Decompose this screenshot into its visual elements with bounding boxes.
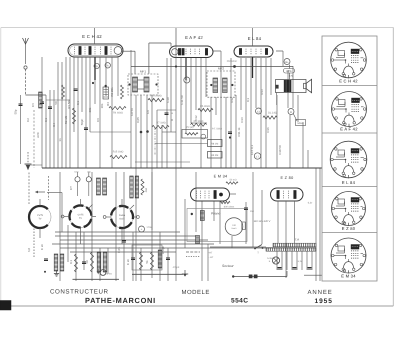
svg-text:R8 1M: R8 1M <box>211 142 218 145</box>
junction <box>140 131 143 134</box>
node F <box>184 77 190 83</box>
node E <box>254 153 260 159</box>
wire <box>285 201 287 278</box>
svg-text:R3: R3 <box>106 102 110 106</box>
IF transformer MF2 <box>207 71 235 97</box>
wire <box>140 95 142 168</box>
coil L2 <box>54 254 58 271</box>
node C1c <box>256 108 262 114</box>
svg-text:B+: B+ <box>285 61 289 64</box>
wire <box>225 97 227 168</box>
svg-text:50pF: 50pF <box>80 118 84 125</box>
svg-text:R2 1M: R2 1M <box>64 115 68 124</box>
wire <box>210 97 212 168</box>
wire <box>85 57 87 168</box>
wire <box>260 58 262 168</box>
node H <box>105 63 110 68</box>
svg-text:MODELE: MODELE <box>182 289 210 296</box>
svg-text:- HT: - HT <box>209 256 214 259</box>
svg-text:50 mΩ: 50 mΩ <box>229 179 236 182</box>
node +250v <box>139 226 145 232</box>
resistor R20 <box>226 182 238 184</box>
tube EL84 <box>234 46 273 57</box>
gang stub CV2 bottom <box>80 228 82 245</box>
wire <box>53 90 55 168</box>
node HPS box <box>284 69 295 74</box>
wire <box>301 251 303 270</box>
resistor R14 <box>263 116 277 119</box>
wire antenna branch <box>20 95 22 164</box>
wire <box>219 201 221 244</box>
antenna coupling switch <box>24 66 27 69</box>
wire node D to fuse <box>293 114 297 122</box>
wire <box>90 131 131 133</box>
svg-text:C9: C9 <box>146 110 150 114</box>
tube EAF42 <box>170 46 214 58</box>
wire <box>26 94 47 96</box>
svg-text:C13: C13 <box>240 117 244 123</box>
svg-text:E Z 80: E Z 80 <box>342 226 356 231</box>
wire <box>207 244 209 281</box>
svg-text:0,05: 0,05 <box>136 117 140 123</box>
gang stub CV2 right <box>92 216 97 218</box>
socket EAF42 <box>332 92 367 127</box>
svg-text:50p: 50p <box>14 109 18 114</box>
svg-text:20k: 20k <box>88 107 92 112</box>
socket EM34 <box>331 238 366 273</box>
svg-text:M: M <box>171 112 173 115</box>
tube EM34 <box>191 188 230 201</box>
fuse box 50mA <box>296 120 306 126</box>
wire <box>190 58 192 123</box>
gang link dashes <box>33 229 35 259</box>
resistor R2 <box>73 108 76 124</box>
wire <box>215 97 217 115</box>
wire bottom rail mid <box>132 273 183 275</box>
resistor R6 <box>198 108 213 111</box>
wire grid cap ECH42 <box>94 28 96 44</box>
capacitor C1 <box>40 101 44 103</box>
svg-text:AVC: AVC <box>36 132 40 138</box>
wire <box>184 199 186 248</box>
filter box outline <box>132 245 162 270</box>
gang stub CV2 top <box>80 199 82 206</box>
tube EZ80 <box>271 188 304 201</box>
capacitor CA <box>19 103 23 105</box>
svg-text:CR 10nF: CR 10nF <box>227 60 238 63</box>
speaker HP <box>306 79 311 92</box>
tuning gang circle CV3 <box>111 206 133 228</box>
svg-text:800 ohms: 800 ohms <box>224 205 235 208</box>
resistor R3c <box>121 85 124 99</box>
wire <box>201 201 203 281</box>
wire <box>205 58 207 97</box>
AVC dashed line <box>33 110 35 168</box>
svg-text:T.A: T.A <box>295 238 299 242</box>
wire thick anode ECH42 <box>94 57 96 80</box>
wire <box>162 131 176 133</box>
wire <box>302 122 304 168</box>
svg-text:R9 2M: R9 2M <box>211 154 218 157</box>
gang stub CV1 bottom <box>39 228 41 238</box>
wire <box>47 192 62 194</box>
svg-text:osc: osc <box>144 187 148 192</box>
gang stub CV2 diag <box>88 205 92 209</box>
svg-text:E L 84: E L 84 <box>342 180 356 185</box>
svg-text:554C: 554C <box>231 298 248 305</box>
resistor R16 <box>75 254 78 272</box>
resistor R8 box <box>208 140 223 147</box>
svg-text:6x15: 6x15 <box>120 218 126 221</box>
socket ECH42 <box>331 42 367 78</box>
wire <box>195 172 197 232</box>
ground arrow main <box>27 152 29 164</box>
socket column divider <box>322 132 377 134</box>
resistor R22 <box>220 201 230 203</box>
capacitor C28 <box>308 267 312 269</box>
power transformer T.A <box>273 243 316 247</box>
svg-text:1n: 1n <box>58 138 62 142</box>
wire <box>286 251 288 270</box>
wire <box>297 95 299 122</box>
capacitor C20 <box>44 258 48 260</box>
wire <box>253 246 266 248</box>
wire <box>60 239 208 241</box>
svg-text:C11 50: C11 50 <box>180 95 184 104</box>
wire grid cap EL84 <box>252 28 254 46</box>
wire <box>289 115 291 168</box>
wire <box>67 225 69 262</box>
node G <box>94 63 99 68</box>
resistor box R3b <box>103 87 109 99</box>
svg-text:R3 20k: R3 20k <box>110 87 114 97</box>
wire <box>91 172 93 281</box>
dash-dot wire <box>154 128 156 155</box>
potentiometer P1 box <box>182 130 208 139</box>
wire <box>255 58 257 108</box>
svg-text:ANNEE: ANNEE <box>308 289 333 296</box>
mains plug <box>249 275 252 278</box>
resistor R5 <box>148 98 164 101</box>
resistor R15 <box>110 155 127 158</box>
svg-text:0,1: 0,1 <box>44 118 48 122</box>
wire <box>130 50 132 168</box>
legend line1 <box>186 251 200 253</box>
svg-text:TV: TV <box>39 218 42 221</box>
wire <box>45 95 47 168</box>
svg-text:0,1: 0,1 <box>76 101 80 105</box>
coil L3 <box>60 254 64 271</box>
capacitor C25 <box>244 207 248 209</box>
wire <box>180 58 182 168</box>
tuning gang circle CV1 <box>29 206 51 228</box>
wire B+ line <box>131 66 293 68</box>
wire <box>60 247 316 249</box>
svg-text:C 2n: C 2n <box>40 244 44 250</box>
wire <box>191 122 207 124</box>
svg-text:6,3v: 6,3v <box>308 202 313 205</box>
coil L1 <box>39 92 43 108</box>
socket column divider <box>322 85 377 87</box>
wire <box>195 58 197 110</box>
svg-text:C18 50: C18 50 <box>278 145 282 155</box>
wire <box>289 65 291 69</box>
resistor R4 <box>109 106 126 109</box>
capacitor C2b <box>74 88 78 90</box>
wire <box>175 46 177 281</box>
wire <box>250 58 252 168</box>
svg-text:470pF: 470pF <box>161 246 165 254</box>
wire <box>69 57 71 168</box>
wire <box>265 58 267 168</box>
socket column divider <box>322 232 377 234</box>
wire <box>132 232 134 281</box>
capacitor C23 <box>131 257 135 259</box>
coil L6 <box>158 250 162 268</box>
svg-text:10n: 10n <box>100 103 104 108</box>
junction <box>175 65 177 67</box>
svg-text:D: D <box>290 111 292 114</box>
svg-text:6,3V: 6,3V <box>298 260 303 263</box>
svg-text:R1 50k: R1 50k <box>67 99 71 109</box>
svg-text:CV: CV <box>31 103 35 107</box>
scan blot bottom-left <box>0 301 11 311</box>
wire <box>49 90 51 168</box>
wire <box>245 58 247 168</box>
wire <box>213 50 221 52</box>
junction <box>232 275 234 277</box>
wire <box>59 172 61 281</box>
resistor R19 <box>151 252 154 270</box>
tuning gang circle CV2 <box>70 206 92 228</box>
wire <box>146 95 148 168</box>
svg-text:C15 0,1: C15 0,1 <box>250 145 254 156</box>
capacitor C26 <box>278 267 282 269</box>
junction <box>92 82 94 84</box>
svg-text:6,8: 6,8 <box>27 248 31 252</box>
wire <box>105 57 107 96</box>
coil L10 <box>135 176 138 198</box>
socket EZ80 <box>332 192 366 226</box>
wire <box>99 57 101 168</box>
resistor R9 box <box>208 152 223 159</box>
gang stub CV3 top <box>121 199 123 206</box>
wire <box>151 172 153 278</box>
gang stub CV2 left <box>64 216 70 218</box>
wire <box>286 271 288 277</box>
page bottom border <box>1 305 393 307</box>
wire thick anode EAF42 <box>185 58 187 80</box>
page right border <box>392 28 394 307</box>
svg-text:R5 0,5MΩ: R5 0,5MΩ <box>150 95 161 98</box>
svg-text:470pF: 470pF <box>173 266 180 269</box>
legend line2 <box>186 256 200 258</box>
svg-text:DL 14Ω: DL 14Ω <box>268 112 277 115</box>
wire <box>155 143 208 145</box>
svg-text:C6: C6 <box>96 118 100 122</box>
wire <box>166 58 168 168</box>
node B+ <box>284 59 290 65</box>
wire <box>231 236 233 248</box>
resistor R7 <box>152 125 169 128</box>
svg-text:R5 30kΩ: R5 30kΩ <box>200 105 210 108</box>
svg-text:MF1: MF1 <box>140 70 146 74</box>
capacitor C2 <box>48 106 52 108</box>
ground <box>56 271 58 274</box>
wire <box>307 150 309 168</box>
capacitor C3 <box>84 127 88 129</box>
antenna <box>23 38 29 44</box>
wire mains left <box>210 246 253 248</box>
wire <box>281 251 283 270</box>
coil L9 <box>130 176 133 198</box>
svg-text:50: 50 <box>54 101 58 105</box>
trimmer CT2 <box>86 177 91 182</box>
svg-text:P2 (M): P2 (M) <box>187 126 194 129</box>
trimmer CT1 <box>75 177 80 182</box>
wire <box>296 251 298 270</box>
svg-text:Cadre: Cadre <box>119 214 126 217</box>
wire <box>167 248 169 281</box>
capacitor C27 <box>293 267 297 269</box>
page left border <box>0 28 2 307</box>
wire <box>75 232 77 281</box>
wire <box>135 161 190 163</box>
svg-text:1955: 1955 <box>315 298 333 305</box>
wire <box>140 248 142 281</box>
svg-text:0,1: 0,1 <box>69 260 73 264</box>
coil L7 <box>96 178 100 195</box>
wire <box>81 57 83 112</box>
node D <box>288 109 294 115</box>
wire <box>157 109 176 111</box>
svg-text:E L 84: E L 84 <box>248 36 262 41</box>
svg-text:0,1: 0,1 <box>246 98 250 102</box>
wire <box>159 232 161 281</box>
lamp M <box>100 270 106 276</box>
svg-text:C8 50: C8 50 <box>130 108 134 116</box>
wire <box>240 58 242 110</box>
wire <box>319 168 321 281</box>
socket column divider <box>322 186 377 188</box>
svg-text:R12: R12 <box>230 97 234 103</box>
resistor R18 <box>140 252 143 270</box>
wire thick anode EL84 <box>252 57 254 78</box>
svg-text:R15 1MΩ: R15 1MΩ <box>113 151 124 154</box>
svg-text:2nF: 2nF <box>250 210 255 213</box>
svg-text:+HT: +HT <box>208 252 213 255</box>
wire main bus <box>42 167 322 169</box>
wire bus upper <box>26 164 43 166</box>
capacitor C14 <box>228 131 232 133</box>
wire <box>287 70 289 108</box>
wire <box>83 232 85 270</box>
svg-text:M 2w: M 2w <box>106 273 112 276</box>
coil L5 <box>103 252 107 272</box>
wire <box>291 251 293 270</box>
svg-text:50mA: 50mA <box>297 122 304 125</box>
svg-text:E A F 42: E A F 42 <box>185 35 203 40</box>
gang stub CV3 left <box>106 216 111 218</box>
wire <box>276 50 283 52</box>
wire <box>170 58 172 132</box>
IF transformer MF1 <box>128 74 158 95</box>
wire <box>156 110 158 168</box>
svg-text:C 2n: C 2n <box>126 259 130 265</box>
svg-text:E M 34: E M 34 <box>214 174 228 178</box>
page top border <box>1 27 394 29</box>
wire <box>315 168 317 281</box>
pilot lamp L <box>272 257 279 264</box>
gang stub CV3 diag <box>130 205 134 209</box>
svg-text:CV75: CV75 <box>78 214 84 217</box>
wire <box>135 95 137 281</box>
svg-text:TV: TV <box>79 217 82 220</box>
phono motor <box>225 218 243 236</box>
junction <box>191 213 193 215</box>
svg-text:R13: R13 <box>260 89 264 95</box>
wire <box>55 235 196 237</box>
svg-text:Secteur: Secteur <box>222 264 235 268</box>
svg-text:CT: CT <box>69 186 73 190</box>
svg-text:Phono: Phono <box>211 212 220 216</box>
resistor R6b <box>191 123 207 126</box>
wire <box>111 57 113 168</box>
tube ECH42 <box>68 44 123 57</box>
wire <box>115 172 117 281</box>
svg-text:R7 1MΩ: R7 1MΩ <box>156 122 165 125</box>
wire <box>107 248 109 274</box>
wire mains cord <box>233 276 287 278</box>
svg-text:E C H 42: E C H 42 <box>82 34 102 39</box>
wire <box>57 62 59 168</box>
wire <box>52 243 214 245</box>
wire <box>245 202 247 244</box>
wire <box>123 172 125 281</box>
arrow left <box>38 191 45 193</box>
wire <box>235 95 237 168</box>
ground <box>184 270 186 274</box>
svg-text:C16: C16 <box>266 127 270 133</box>
svg-text:50: 50 <box>85 260 89 264</box>
wire bottom rail left <box>73 278 120 280</box>
wire <box>161 125 163 168</box>
gang stub CV1 top <box>39 199 41 206</box>
svg-text:P.T. 50kΩ: P.T. 50kΩ <box>212 128 222 131</box>
output transformer T1 <box>276 80 307 93</box>
socket column frame <box>322 36 377 281</box>
dashed link wire <box>28 173 30 205</box>
svg-text:0,05: 0,05 <box>117 247 121 253</box>
coil L4 <box>97 252 101 272</box>
wire <box>151 95 153 230</box>
wire <box>122 50 135 52</box>
capacitor CM <box>165 112 169 114</box>
wire <box>148 43 150 74</box>
wire <box>294 201 296 243</box>
svg-text:C4: C4 <box>52 123 56 127</box>
svg-text:HPS: HPS <box>286 70 291 73</box>
phono coil2 <box>196 236 200 244</box>
wire <box>277 201 279 243</box>
coil L8 <box>103 178 107 195</box>
resistor R21 <box>141 179 144 195</box>
wire <box>200 58 202 168</box>
wire bottom rail right <box>304 274 322 276</box>
wire <box>99 248 101 281</box>
wire <box>175 28 177 46</box>
svg-text:E Z 80: E Z 80 <box>281 176 294 180</box>
